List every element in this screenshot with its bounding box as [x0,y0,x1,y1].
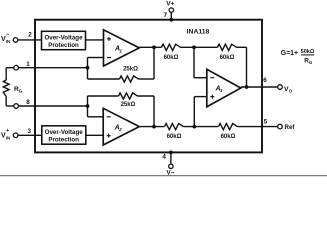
svg-text:6: 6 [263,77,267,84]
svg-text:INA118: INA118 [187,29,210,36]
svg-text:1: 1 [26,61,30,68]
svg-text:IN: IN [6,39,10,44]
svg-text:3: 3 [220,88,223,93]
svg-text:7: 7 [164,12,168,19]
svg-text:3: 3 [27,128,31,135]
svg-text:60kΩ: 60kΩ [221,134,236,140]
svg-text:60kΩ: 60kΩ [167,134,182,140]
svg-text:Over-Voltage: Over-Voltage [44,34,83,41]
svg-text:8: 8 [26,99,30,106]
svg-text:2: 2 [28,32,32,39]
svg-text:60kΩ: 60kΩ [164,55,179,61]
svg-text:2: 2 [118,127,122,132]
svg-text:Protection: Protection [48,137,79,144]
svg-text:+: + [294,50,298,57]
svg-text:Protection: Protection [48,42,79,49]
svg-text:V+: V+ [166,1,174,8]
svg-text:IN: IN [6,135,10,140]
svg-text:50kΩ: 50kΩ [301,49,315,55]
svg-text:5: 5 [264,119,268,126]
svg-text:4: 4 [162,154,166,161]
svg-text:25kΩ: 25kΩ [121,102,136,108]
svg-text:25kΩ: 25kΩ [123,67,138,73]
svg-text:+: + [6,128,9,134]
svg-text:Over-Voltage: Over-Voltage [45,129,84,136]
svg-text:60kΩ: 60kΩ [220,55,235,61]
svg-text:G: G [19,89,23,94]
svg-text:O: O [289,89,293,94]
svg-text:Ref: Ref [285,124,296,131]
svg-text:1: 1 [119,48,122,53]
svg-text:−: − [6,32,9,38]
svg-text:G: G [309,60,313,65]
